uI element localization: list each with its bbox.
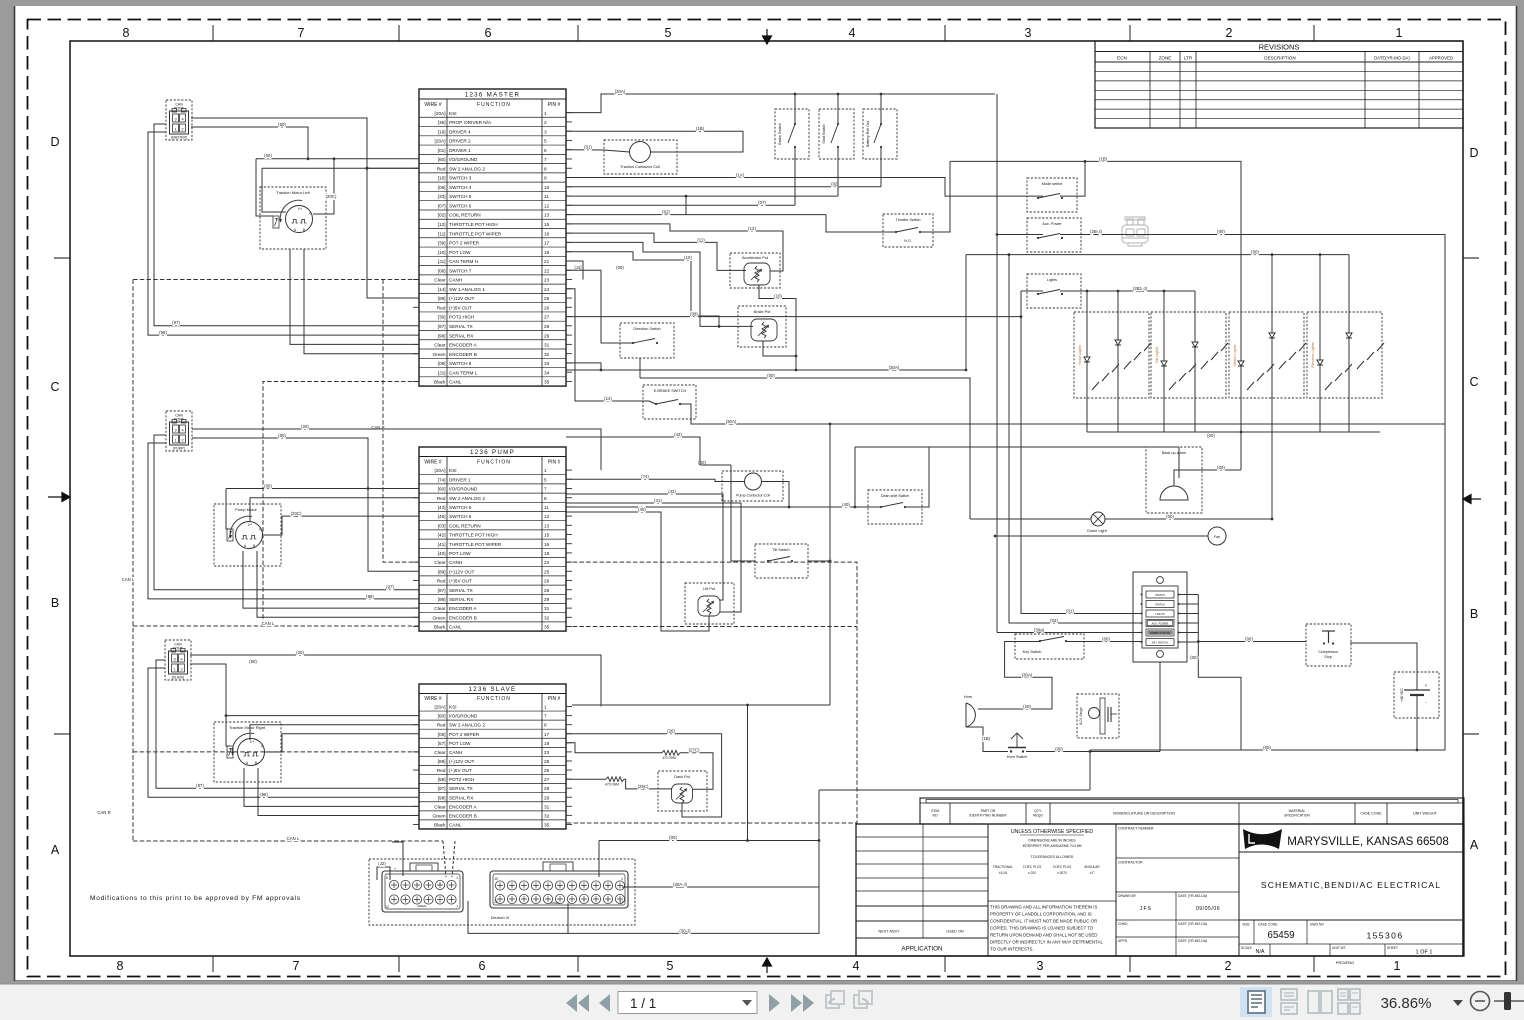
svg-text:[08]: [08] [438,361,446,366]
svg-text:IDENTIFYING NUMBER: IDENTIFYING NUMBER [969,814,1007,818]
svg-text:APPLICATION: APPLICATION [901,946,943,953]
svg-text:CAN L: CAN L [122,577,135,582]
svg-text:(41): (41) [654,498,662,503]
svg-text:SWITCH 6: SWITCH 6 [449,203,472,208]
wire slave port A [190,655,601,707]
wire head light drop 1 [1086,291,1088,432]
toolbar single page layout icon active [1240,987,1272,1017]
wire tail light drop 2 [1194,291,1196,432]
svg-text:1: 1 [621,877,623,881]
svg-text:09/05/06: 09/05/06 [1196,906,1220,912]
svg-text:JFS: JFS [1140,906,1152,912]
wire pump encoder A [243,551,419,608]
potentiometer R2 brake pot [751,319,777,341]
svg-text:28: 28 [544,588,550,593]
svg-text:KSI: KSI [449,705,457,710]
svg-text:REVISIONS: REVISIONS [1259,43,1300,52]
svg-text:KSI: KSI [449,111,457,116]
svg-text:I/O/GROUND: I/O/GROUND [449,487,478,492]
svg-text:22: 22 [544,268,550,273]
svg-text:FUNCTION: FUNCTION [477,459,511,465]
wire serial rx master [148,132,419,335]
wire keypad to compressor stop [1198,641,1306,643]
svg-text:1: 1 [174,128,176,132]
wire big box left riser [965,255,967,370]
switch S4 throttle switch box [883,214,933,247]
svg-text:[74]: [74] [438,477,446,482]
svg-text:15: 15 [544,222,550,227]
svg-text:8: 8 [544,723,547,728]
svg-text:RABBIT TURTLE: RABBIT TURTLE [1150,631,1170,635]
motor M4 fan [1208,527,1226,545]
wire serial tx master [154,124,419,326]
wire pot2 high long [566,316,1021,318]
svg-text:CONFIDENTIAL. IT MUST NOT BE M: CONFIDENTIAL. IT MUST NOT BE MADE PUBLIC… [990,919,1097,924]
svg-text:Back up alarm: Back up alarm [1162,451,1186,455]
svg-text:[97]: [97] [438,324,446,329]
svg-text:12: 12 [544,203,550,208]
svg-text:V+: V+ [250,740,254,744]
svg-text:FUNCTION: FUNCTION [477,696,511,702]
svg-text:(00): (00) [1102,637,1110,642]
switch S8 aux power [1037,237,1039,239]
wire lights common 00 [1087,431,1380,433]
svg-text:[57]: [57] [438,741,446,746]
wire pump ground row [226,488,419,490]
svg-text:STATUS: STATUS [1155,603,1165,607]
svg-text:9: 9 [544,176,547,181]
svg-text:Traction Contactor Coil: Traction Contactor Coil [620,164,660,169]
wire slave resistor net 27C [566,743,662,753]
toolbar continuous layout icon [1281,989,1297,1014]
svg-text:[36]: [36] [438,120,446,125]
svg-text:ENCODER B: ENCODER B [449,352,477,357]
svg-text:DATE (YR-MO-DA): DATE (YR-MO-DA) [1178,922,1207,926]
svg-text:13: 13 [544,523,550,528]
svg-text:11: 11 [544,194,549,199]
wire slave encoder A [244,768,419,806]
svg-text:[05]: [05] [438,732,446,737]
svg-text:Clear: Clear [434,750,446,755]
svg-text:[16]: [16] [438,176,446,181]
svg-text:ANGULAR: ANGULAR [1084,865,1100,869]
motor M1 traction motor left [286,206,313,233]
switch S3 battery roll out [880,123,882,125]
svg-text:DIMENSIONS ARE IN INCHES: DIMENSIONS ARE IN INCHES [1028,839,1076,843]
svg-text:D: D [1469,146,1478,160]
svg-text:1236 SLAVE: 1236 SLAVE [469,686,517,693]
svg-text:35: 35 [544,380,550,385]
switch S12 tilt switch box [755,544,808,578]
svg-text:(11): (11) [697,237,705,242]
svg-text:[89]: [89] [438,296,446,301]
coil K1 traction contactor coil box [604,140,677,174]
svg-text:Traction Motor Left: Traction Motor Left [276,190,310,195]
toolbar next page button [769,994,780,1012]
breaker CB1 compressor stop box [1306,624,1351,666]
svg-text:(20C): (20C) [291,511,302,516]
size case code dwg rows [1239,919,1464,921]
svg-text:[PUMP]: [PUMP] [173,447,184,451]
svg-text:(97): (97) [196,783,204,788]
svg-text:[60]: [60] [438,487,446,492]
controller table U3 1236 SLAVE [419,684,566,829]
svg-text:(00): (00) [669,835,677,840]
svg-text:SIZE: SIZE [1242,923,1250,927]
connector J-CAN master port [166,100,192,140]
svg-text:18: 18 [544,741,550,746]
alarm LS1 back up alarm horn [1160,486,1188,500]
svg-text:KEY SWITCH: KEY SWITCH [1152,641,1168,645]
svg-text:34: 34 [544,370,550,375]
svg-text:[97]: [97] [438,786,446,791]
keypad button STATUS [1146,601,1174,608]
svg-text:C: C [1469,375,1478,389]
lamp DS3 brake lights lens hatches [1247,382,1254,390]
svg-text:CAN TERM L: CAN TERM L [449,370,478,375]
wire keypad right bus [1198,595,1241,751]
svg-text:(00): (00) [1190,655,1198,660]
svg-text:7: 7 [293,959,300,973]
motor M3 traction motor right box [214,722,281,782]
svg-text:3 DEC PLCS: 3 DEC PLCS [1053,865,1072,869]
svg-text:+: + [394,867,396,871]
svg-text:(+)12V OUT: (+)12V OUT [449,569,475,574]
svg-text:SERIAL RX: SERIAL RX [449,597,474,602]
svg-text:25: 25 [544,296,550,301]
svg-text:APPROVED: APPROVED [1429,56,1453,61]
connector J-CAN pump port [166,411,192,451]
svg-text:[SLAVE]: [SLAVE] [172,676,184,680]
svg-text:SERIAL TX: SERIAL TX [449,786,474,791]
svg-text:11: 11 [544,505,549,510]
wire driver4 to contactor [566,131,743,152]
wire brake light drop 2 riser [1271,255,1273,338]
svg-text:(+)12V OUT: (+)12V OUT [449,296,475,301]
breaker CB1 compressor stop symbol [1322,630,1335,632]
svg-text:(00): (00) [1263,745,1271,750]
svg-text:(J2): (J2) [378,861,386,866]
svg-text:Clear: Clear [434,606,446,611]
svg-text:CANH: CANH [449,750,462,755]
wire motor left V- to ground [313,159,334,214]
svg-text:POT LOW: POT LOW [449,250,471,255]
svg-text:(25C): (25C) [638,784,649,789]
svg-text:(+)5V OUT: (+)5V OUT [449,579,472,584]
svg-text:470 OHM: 470 OHM [605,783,619,787]
wire 43 step [566,437,700,465]
svg-text:1: 1 [456,876,458,880]
svg-text:A: A [51,843,60,857]
wire encoder B master [304,249,419,354]
svg-text:ENCODER B: ENCODER B [449,813,477,818]
svg-text:B: B [51,596,59,610]
svg-text:LTR: LTR [1184,56,1193,61]
keypad button LIGHTS [1146,610,1174,617]
svg-text:[J1]: [J1] [438,370,446,375]
svg-text:7: 7 [298,26,305,40]
svg-text:Red: Red [437,768,446,773]
svg-text:SERIAL TX: SERIAL TX [449,324,474,329]
svg-text:THROTTLE POT HIGH: THROTTLE POT HIGH [449,533,498,538]
svg-text:16: 16 [544,231,550,236]
svg-text:Black: Black [434,822,446,827]
toolbar first page button [566,994,589,1012]
svg-text:(+)5V OUT: (+)5V OUT [449,305,472,310]
svg-text:Battery Roll Out: Battery Roll Out [866,121,870,147]
svg-text:(+)12V OUT: (+)12V OUT [449,759,475,764]
svg-text:SERIAL TX: SERIAL TX [449,588,474,593]
svg-text:DATE (YR-MO-DA): DATE (YR-MO-DA) [1178,894,1207,898]
svg-text:[39]: [39] [438,241,446,246]
wire slave port B ground [190,664,230,746]
svg-text:2: 2 [181,128,183,132]
wire big loop box [1060,235,1445,751]
battery BT1 48VDC box [1394,672,1439,718]
svg-text:CASE CODE: CASE CODE [1360,812,1382,816]
svg-text:[06]: [06] [438,185,446,190]
svg-text:CASE CODE: CASE CODE [1258,923,1278,927]
svg-text:155306: 155306 [1366,931,1403,941]
svg-text:6: 6 [386,876,388,880]
svg-text:1: 1 [544,111,547,116]
svg-text:Red: Red [437,579,446,584]
wire horn switch out [1026,751,1160,753]
svg-text:(07): (07) [758,200,766,205]
company logo Landoll [1238,824,1240,956]
wire lights out 2B1-J [1060,290,1195,292]
wire pot2 wiper to brake pot [566,242,753,326]
svg-text:(00): (00) [698,460,706,465]
svg-text:DRIVER 2: DRIVER 2 [449,139,471,144]
right center arrow [1463,495,1481,504]
svg-text:5: 5 [544,477,547,482]
svg-text:[97]: [97] [438,588,446,593]
svg-text:Fan: Fan [1214,535,1220,539]
wire driver1 to contactor coil [566,150,630,152]
connector J-CAN slave port [165,640,191,680]
svg-text:FUNCTION: FUNCTION [477,102,511,108]
switch S6 e.brake switch [655,403,657,405]
svg-text:Lift Pot: Lift Pot [703,587,716,591]
svg-text:Red: Red [437,166,446,171]
lamp DS2 tail lights diode lamp 2 [1194,312,1196,398]
svg-text:DRIVER 1: DRIVER 1 [449,477,471,482]
svg-text:[42]: [42] [438,533,446,538]
wire slave 26 loop [566,734,722,817]
svg-text:AMSEAL: AMSEAL [417,905,427,908]
svg-text:SCHEMATIC,BENDI/AC ELECTRICAL: SCHEMATIC,BENDI/AC ELECTRICAL [1261,880,1441,890]
svg-text:7: 7 [544,714,547,719]
wire bdi riser [1089,752,1091,791]
svg-text:REQD: REQD [1033,814,1043,818]
wire keypad 30A row [997,632,1142,634]
svg-text:[06]: [06] [438,268,446,273]
svg-text:COIL RETURN: COIL RETURN [449,523,481,528]
svg-text:(20): (20) [1023,704,1031,709]
svg-text:28: 28 [544,324,550,329]
svg-text:(10): (10) [684,255,692,260]
svg-text:(60): (60) [264,153,272,158]
svg-text:SCALE: SCALE [1241,946,1253,950]
svg-text:(27C): (27C) [689,748,700,753]
svg-text:Pump Contactor Coil: Pump Contactor Coil [736,494,770,498]
lamp DS4 reverse lights diode lamp 2 [1348,312,1350,398]
svg-text:(00): (00) [1245,637,1253,642]
potentiometer R3 dash pot box [658,771,707,811]
wire can term H jumper [566,261,583,280]
wire motor left V+ riser [262,167,419,169]
svg-text:TO OUR INTERESTS.: TO OUR INTERESTS. [990,947,1034,952]
svg-text:Horn Switch: Horn Switch [1007,755,1027,759]
toolbar zoom dropdown caret [1453,1000,1463,1006]
lamp DS3 brake lights diode lamp 2 [1271,312,1273,398]
svg-text:APPD.: APPD. [1118,939,1128,943]
right zone tick B/A [1463,733,1479,735]
svg-text:(20C): (20C) [326,194,337,199]
zone ticks top [212,25,214,41]
svg-text:TOLERANCES ALLOWED: TOLERANCES ALLOWED [1031,855,1074,859]
wire slave motor V- [264,734,419,752]
svg-text:[12]: [12] [438,222,446,227]
svg-text:28: 28 [544,786,550,791]
svg-text:(00): (00) [1251,250,1259,255]
connector J2 pin jumper [377,867,390,880]
wire accumulator pot low [759,285,796,370]
svg-text:C: C [50,380,59,394]
svg-text:33: 33 [544,361,550,366]
wire encoder A master [290,249,419,344]
wire CAN hooks to deutsch [443,841,446,877]
svg-text:1 OF 1: 1 OF 1 [1415,950,1432,956]
left center arrow [48,493,70,502]
svg-text:UNLESS OTHERWISE SPECIFIED: UNLESS OTHERWISE SPECIFIED [1011,829,1094,835]
svg-text:ENCODER A: ENCODER A [449,804,477,809]
lamp DS1 head lights lens hatches [1092,382,1099,390]
svg-text:(06): (06) [616,265,624,270]
svg-text:ZONE: ZONE [1159,56,1172,61]
svg-text:17: 17 [544,732,550,737]
left zone tick B/A [54,733,70,735]
svg-text:ECN: ECN [1117,56,1127,61]
svg-text:[60]: [60] [438,157,446,162]
svg-text:[98]: [98] [438,795,446,800]
svg-text:+: + [1425,683,1428,688]
svg-text:SW 2 ANALOG 2: SW 2 ANALOG 2 [449,723,485,728]
svg-text:Clear: Clear [434,278,446,283]
svg-text:Clear: Clear [434,560,446,565]
wire lights rail 00 [966,254,1349,256]
svg-text:23: 23 [544,278,550,283]
wire deutsch 00 line [599,790,819,841]
svg-text:7: 7 [544,157,547,162]
svg-text:CHKD.: CHKD. [1118,922,1129,926]
svg-text:36.86%: 36.86% [1381,995,1432,1012]
wire battery to 00 rail [1416,695,1418,750]
svg-text:[11]: [11] [438,231,445,236]
svg-text:D: D [50,135,59,149]
wire pump port A [192,429,601,470]
svg-text:DATE (YR-MO-DA): DATE (YR-MO-DA) [1178,939,1207,943]
svg-text:35: 35 [544,625,550,630]
svg-text:Green: Green [432,813,445,818]
svg-text:3: 3 [174,118,176,122]
svg-text:(20): (20) [296,650,304,655]
svg-text:Lights: Lights [1047,278,1057,282]
svg-text:(98): (98) [366,594,374,599]
svg-text:SW 1 ANALOG 1: SW 1 ANALOG 1 [449,287,485,292]
wire 00 rail to parts strip [819,789,1090,791]
svg-text:NOMENCLATURE OR DESCRIPTION: NOMENCLATURE OR DESCRIPTION [1113,812,1175,816]
lamp DS1 head lights diode lamp 2 [1117,312,1119,398]
wire fan line [995,535,1208,537]
wire CANL dashed master [263,382,419,627]
switch S4 throttle switch [895,231,897,233]
svg-text:PROPERTY OF LANDOLL CORPORATIO: PROPERTY OF LANDOLL CORPORATION, AND IS [990,912,1092,917]
svg-text:10: 10 [494,877,498,881]
svg-text:18: 18 [544,551,550,556]
svg-text:WIRE #: WIRE # [424,696,441,702]
svg-text:I/O/GROUND: I/O/GROUND [449,157,478,162]
toolbar zoom out circle [1471,992,1490,1011]
svg-text:3: 3 [1037,959,1044,973]
svg-text:Compressor: Compressor [1318,650,1338,654]
svg-text:(43): (43) [674,432,682,437]
svg-text:Clear: Clear [434,804,446,809]
svg-text:DWG NO: DWG NO [1310,923,1324,927]
svg-text:CAN L: CAN L [262,621,275,626]
svg-text:LIGHTS: LIGHTS [1155,612,1165,616]
svg-text:THIS DRAWING AND ALL INFORMATI: THIS DRAWING AND ALL INFORMATION THEREIN… [990,905,1098,910]
svg-text:±1°: ±1° [1090,871,1096,875]
svg-text:[33]: [33] [438,194,446,199]
svg-text:ITEM: ITEM [931,809,939,813]
wire CAN L dashed line [133,625,419,627]
svg-text:THROTTLE POT HIGH: THROTTLE POT HIGH [449,222,498,227]
svg-text:RETURN UPON DEMAND AND SHALL N: RETURN UPON DEMAND AND SHALL NOT BE USED [990,933,1097,938]
svg-text:(26): (26) [667,729,675,734]
svg-text:SWITCH 3: SWITCH 3 [449,176,472,181]
svg-text:Brake Pot: Brake Pot [754,310,772,314]
wire ebrake out 30A [680,404,1445,424]
svg-text:Stop: Stop [1324,655,1331,659]
svg-text:17: 17 [544,241,550,246]
svg-text:[36]: [36] [438,315,446,320]
toolbar prev page button [599,994,610,1012]
svg-text:Key Switch: Key Switch [1023,650,1042,654]
svg-text:Red: Red [437,305,446,310]
svg-text:(1B): (1B) [1099,157,1108,162]
svg-text:(60): (60) [249,659,257,664]
svg-text:(01): (01) [1066,609,1074,614]
svg-text:[MASTER]: [MASTER] [171,136,187,140]
svg-text:POT2 HIGH: POT2 HIGH [449,777,474,782]
svg-text:[40]: [40] [438,551,446,556]
svg-text:NEXT ASSY: NEXT ASSY [878,930,900,934]
svg-text:UNIT WEIGHT: UNIT WEIGHT [1413,812,1437,816]
wire slave motor V+ [250,725,419,740]
svg-text:[89]: [89] [438,569,446,574]
svg-text:(30A): (30A) [1022,672,1033,677]
motor M2 pump motor [236,522,263,549]
svg-text:[10]: [10] [438,250,446,255]
svg-text:2: 2 [180,668,182,672]
svg-text:POT LOW: POT LOW [449,551,471,556]
svg-text:Traction Motor Right: Traction Motor Right [229,725,266,730]
svg-text:4: 4 [181,118,183,122]
wire throttle pot high [566,224,783,271]
svg-text:1: 1 [544,705,547,710]
